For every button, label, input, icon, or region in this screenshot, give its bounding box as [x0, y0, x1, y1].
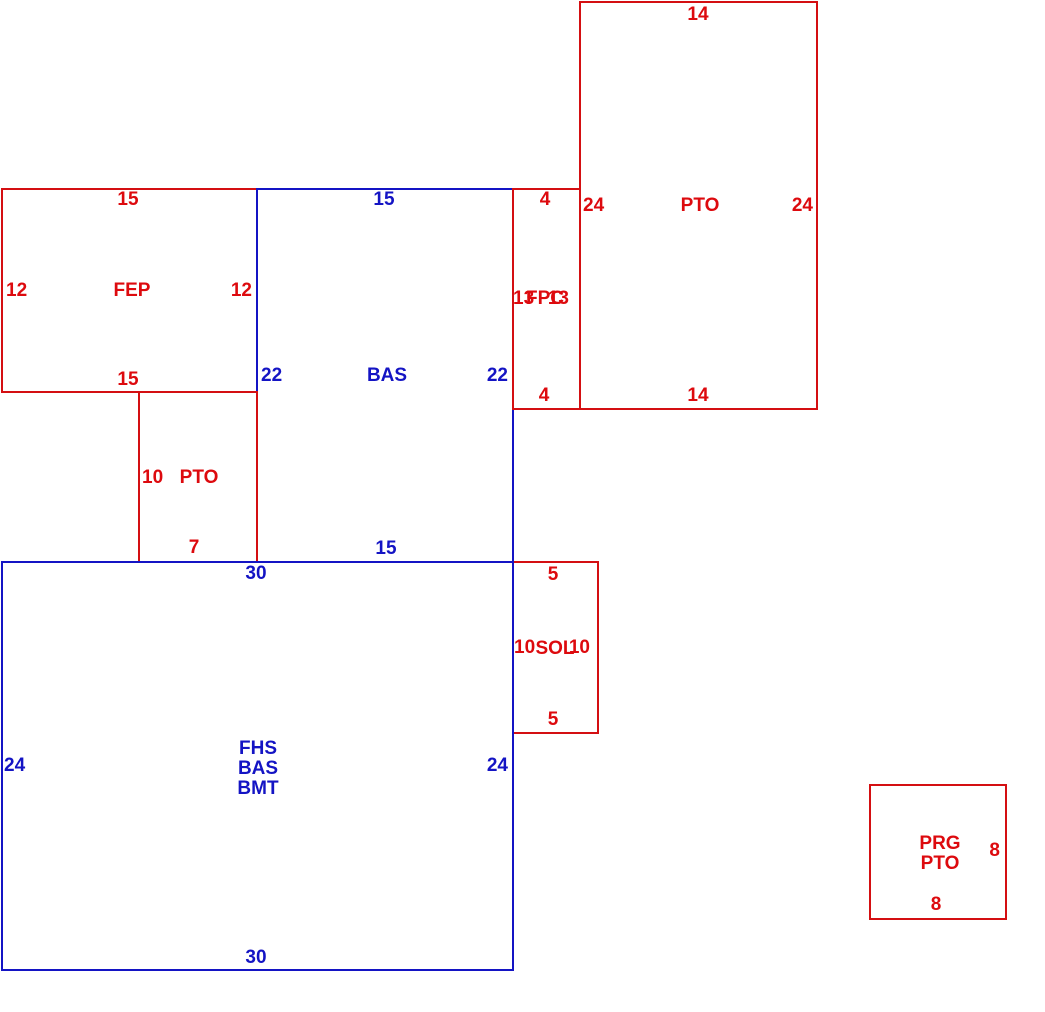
FEP left dim 12 — [6, 281, 27, 301]
room BAS outline — [256, 188, 514, 563]
PRG right dim 8 — [989, 841, 1000, 861]
SOL left dim 10 — [514, 638, 535, 658]
FEP right dim 12 — [231, 281, 252, 301]
room SOL outline — [512, 561, 599, 734]
room PTO (small) outline — [138, 391, 258, 563]
FPC left dim 13 — [513, 289, 534, 309]
PTO large bottom dim 14 — [687, 386, 708, 406]
SOL name — [535, 639, 574, 659]
PTO large name — [681, 196, 720, 216]
FHS left dim 24 — [4, 756, 25, 776]
FPC top dim 4 — [540, 190, 551, 210]
FPC right dim 13 — [548, 289, 569, 309]
FHS bottom dim 30 — [245, 948, 266, 968]
PTO small left dim 10 — [142, 468, 163, 488]
BAS bottom dim 15 — [375, 539, 396, 559]
BAS top dim 15 — [373, 190, 394, 210]
FPC name — [526, 289, 564, 309]
FEP name — [114, 281, 151, 301]
room FHS/BAS/BMT outline — [1, 561, 514, 971]
PTO large left dim 24 — [583, 196, 604, 216]
BAS name — [367, 366, 407, 386]
FPC bottom dim 4 — [539, 386, 550, 406]
PTO large top dim 14 — [687, 5, 708, 25]
FEP top dim 15 — [117, 190, 138, 210]
PTO small name — [180, 468, 219, 488]
FHS/BAS/BMT name block — [237, 739, 278, 799]
PTO large right dim 24 — [792, 196, 813, 216]
FHS right dim 24 — [487, 756, 508, 776]
SOL bottom dim 5 — [548, 710, 559, 730]
SOL top dim 5 — [548, 565, 559, 585]
room FPC outline — [512, 188, 581, 410]
PRG bottom dim 8 — [931, 895, 942, 915]
BAS left dim 22 — [261, 366, 282, 386]
room PRG/PTO outline — [869, 784, 1007, 920]
room PTO (large) outline — [579, 1, 818, 410]
FEP bottom dim 15 — [117, 370, 138, 390]
SOL right dim 10 — [569, 638, 590, 658]
BAS right dim 22 — [487, 366, 508, 386]
PRG/PTO name block — [919, 834, 960, 874]
FHS top dim 30 — [245, 564, 266, 584]
PTO small bottom dim 7 — [189, 538, 200, 558]
room FEP outline — [1, 188, 258, 393]
